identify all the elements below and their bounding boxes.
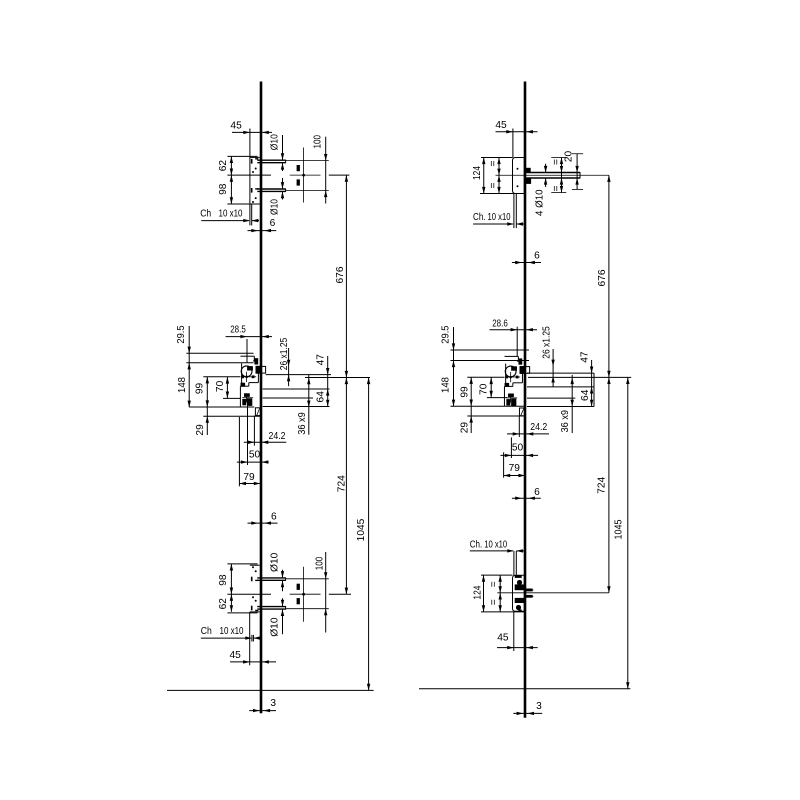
dim 70 line (right) — [490, 377, 492, 397]
dim = line (top-right) — [561, 158, 563, 193]
svg-text:24.2: 24.2 — [269, 431, 286, 442]
svg-text:62: 62 — [218, 598, 229, 610]
dim 3 line (right) — [513, 712, 542, 714]
pin extension line lower (top-left) — [286, 190, 329, 192]
hinge axis line (bottom-left) — [227, 593, 271, 595]
svg-text:Ch: Ch — [201, 626, 212, 637]
dim 50 line (right) — [501, 454, 539, 456]
svg-text:79: 79 — [509, 463, 521, 474]
svg-text:124: 124 — [473, 585, 484, 599]
cylinder circle (right) — [505, 366, 516, 377]
case step right of cylinder (left) — [257, 373, 259, 383]
svg-text:28.5: 28.5 — [230, 325, 246, 336]
svg-text:36 x9: 36 x9 — [297, 412, 308, 435]
extension line x=249.7 (bottom-left) — [249, 612, 251, 665]
dim 24.2 line (right) — [507, 433, 549, 435]
follower blocks (right) — [507, 400, 510, 405]
svg-text:6: 6 — [270, 218, 276, 229]
svg-text:24.2: 24.2 — [530, 422, 547, 433]
follower cross (left) — [246, 393, 248, 402]
svg-text:45: 45 — [230, 650, 242, 661]
Ch leader (bottom-right) — [470, 550, 513, 552]
svg-text:64: 64 — [580, 389, 591, 401]
svg-text:Ø10: Ø10 — [270, 617, 281, 637]
svg-text:99: 99 — [194, 383, 205, 395]
case bottom (right) — [451, 405, 525, 407]
keep centerline cross (top-left) — [303, 148, 305, 203]
line y=398.1 (right) — [527, 397, 575, 399]
cylinder circle (left) — [241, 366, 252, 377]
case fixing block (left) — [241, 383, 245, 386]
dim 24.2 line (left) — [244, 441, 287, 443]
svg-text:98: 98 — [218, 183, 229, 195]
case left edge (right) — [503, 386, 505, 406]
latch line y=398 (left) — [263, 397, 313, 399]
extension line x=512.9 (top-right) — [512, 129, 514, 158]
dim 1045 line (left) — [368, 378, 370, 691]
dim line 29.5/148 (right) — [453, 327, 455, 406]
chamfer second line (top-left) — [251, 204, 253, 226]
dim line 47/64 (right) — [591, 360, 593, 407]
dim 26x1.25 line (right) — [552, 349, 554, 387]
latch block (left) — [255, 359, 258, 364]
svg-text:676: 676 — [597, 269, 608, 286]
cylinder dark bar (right) — [512, 367, 517, 370]
tick y=374.6 (left) — [266, 374, 331, 376]
svg-text:Ø10: Ø10 — [270, 552, 281, 572]
tick bottom (bottom-left) — [227, 612, 257, 614]
tick y=416.2 (left) — [203, 415, 261, 417]
dim 676 line (left) — [345, 175, 347, 377]
tick y=416 (right) — [467, 415, 525, 417]
tick y=406.5 (left) — [263, 406, 330, 408]
pin extension line upper (top-left) — [286, 160, 329, 162]
cylinder box on plate (right) — [520, 367, 530, 374]
svg-text:6: 6 — [534, 251, 540, 262]
Ch leader (top-left) — [201, 220, 249, 222]
dim 28.5 line (left) — [226, 336, 272, 338]
dim 6 line (top-right) — [512, 262, 541, 264]
svg-text:3: 3 — [270, 698, 276, 709]
tick y=157.5 (top-right) — [481, 157, 513, 159]
dim 724 line (right) — [608, 377, 610, 592]
dim Ø10 line upper (top-left) — [282, 135, 284, 160]
svg-text:=: = — [488, 581, 499, 587]
dim 6 line (left middle) — [248, 522, 278, 524]
svg-text:29: 29 — [460, 422, 471, 434]
svg-text:Ch: Ch — [200, 209, 211, 220]
dim line 99/29 (right) — [470, 377, 472, 433]
dim 20 line (top-right) — [576, 154, 578, 190]
svg-text:47: 47 — [316, 354, 327, 366]
keep plate (bottom-right) — [513, 575, 525, 611]
door bottom line (left) — [167, 689, 374, 691]
case top step (left) — [253, 356, 255, 361]
keep centerline cross (bottom-left) — [303, 567, 305, 622]
hinge plate dashed marks (bottom-left) — [251, 606, 253, 611]
svg-text:10 x10: 10 x10 — [484, 540, 507, 551]
dim 45 line (top-left) — [232, 131, 272, 133]
hinge axis line (top-left) — [227, 174, 271, 176]
cylinder cross (left) — [242, 376, 257, 378]
dim 6 line (right middle) — [512, 497, 541, 499]
dim 6 line (top-left) — [248, 230, 277, 232]
deadbolt end cap (right) — [593, 373, 595, 406]
extension line x=249.9 (top-left plate edge) — [249, 129, 251, 226]
tick y=353.2 (left) — [186, 352, 253, 354]
case tab below (right) — [519, 408, 525, 416]
dim line 47/64 (left) — [327, 356, 329, 407]
extension x=247.5 (left) — [247, 398, 249, 465]
extension x=239.4 (left) — [238, 417, 240, 486]
cylinder cross (right) — [506, 376, 521, 378]
latch block (right) — [519, 359, 522, 364]
svg-text:50: 50 — [249, 450, 261, 461]
axis reference line y=377.5 (left) — [305, 377, 370, 379]
svg-text:45: 45 — [230, 120, 242, 131]
hinge plate dashed marks (top-left) — [251, 159, 253, 164]
dim 26x1.25 line (left) — [288, 348, 290, 386]
svg-text:148: 148 — [177, 377, 188, 393]
dim 676 line (right) — [608, 175, 610, 377]
keep bars (top-right) — [526, 172, 580, 174]
tick y=350 (right) — [451, 349, 530, 351]
extension x=519.3 (right) — [518, 416, 520, 437]
dim 100 line (top-left) — [325, 137, 327, 204]
svg-text:6: 6 — [271, 512, 277, 523]
extension line x=517.2 (right) — [516, 327, 518, 357]
svg-text:3: 3 — [536, 701, 542, 712]
dim Ø10 line upper (bottom-left) — [282, 570, 284, 578]
cylinder axis tick (left) — [203, 376, 240, 378]
svg-text:1045: 1045 — [614, 519, 625, 539]
dim 50 line (left) — [237, 461, 269, 463]
extension x=254.4 (left) — [253, 416, 255, 446]
dim 70 line (left) — [226, 377, 228, 399]
svg-text:148: 148 — [441, 377, 452, 393]
hinge pin lower (top-left) — [257, 188, 285, 190]
pin extension line upper (bottom-left) — [286, 578, 329, 580]
svg-text:29.5: 29.5 — [176, 325, 187, 344]
dim 36x9 line (left) — [308, 375, 310, 435]
svg-text:10 x10: 10 x10 — [488, 212, 511, 223]
tick/plate bottom y=204 (top-left) — [227, 203, 259, 205]
dim 724 line (left) — [345, 378, 347, 595]
case fixing block (right) — [505, 383, 509, 386]
svg-text:70: 70 — [479, 383, 490, 395]
hinge plate bottom edge (bottom-left) — [250, 611, 260, 613]
chamfer marks (top-right) — [513, 194, 515, 228]
dim 28.6 line (right) — [490, 329, 538, 331]
dim 124 line (bottom-right) — [483, 575, 485, 612]
cylinder left flat (left) — [241, 363, 243, 385]
tick y=156.4 (top-left) — [227, 155, 257, 157]
dim 79 line (right) — [504, 475, 525, 477]
svg-text:1045: 1045 — [356, 518, 367, 541]
tick y=373.1 (right) — [527, 372, 594, 374]
dim 3 line (left) — [249, 710, 276, 712]
svg-text:47: 47 — [580, 351, 591, 363]
svg-text:64: 64 — [316, 391, 327, 403]
hinge pin upper (bottom-left) — [257, 577, 285, 579]
extension x=511.4 (right) — [510, 437, 512, 458]
svg-text:20: 20 — [564, 151, 575, 163]
case top edge (right) — [505, 355, 519, 357]
tick y=362.8 (left) — [186, 362, 253, 364]
case tab below (left) — [255, 408, 261, 416]
follower tick y=397.6 (right) — [487, 397, 508, 399]
dim = line (bottom-right) — [499, 575, 501, 612]
tick y=389 (left) — [263, 388, 330, 390]
keep slot marks (bottom-left) — [297, 599, 299, 604]
cylinder left flat (right) — [505, 364, 507, 386]
svg-text:Ch.: Ch. — [470, 540, 483, 551]
extension line x=247 (left, cylinder axis) — [246, 339, 248, 363]
svg-text:26 x1.25: 26 x1.25 — [542, 326, 553, 359]
dim line 99/29 (left) — [206, 377, 208, 435]
keep axis line (top-right) — [496, 174, 609, 176]
chamfer marks (bottom-left) — [251, 635, 253, 642]
svg-text:=: = — [488, 182, 499, 188]
tick y=193.5 (top-right) — [480, 193, 524, 195]
hinge pin lower (bottom-left) — [257, 606, 285, 608]
dim 79 line (left) — [239, 483, 260, 485]
svg-text:62: 62 — [218, 160, 229, 172]
case left edge (left) — [239, 386, 241, 407]
follower blocks (left) — [243, 399, 246, 404]
left door centerline — [260, 82, 263, 714]
svg-text:29: 29 — [195, 424, 206, 436]
right door centerline — [524, 82, 527, 718]
tick top (bottom-left) — [227, 563, 257, 565]
pin extension line lower (bottom-left) — [286, 608, 329, 610]
tick y=175.1 right (top-left) — [329, 174, 350, 176]
svg-text:124: 124 — [472, 166, 483, 180]
svg-text:=: = — [488, 160, 499, 166]
extension x=513.8 (bottom-right) — [513, 612, 515, 651]
keep hooks (top-right) — [526, 168, 530, 172]
svg-text:Ø10: Ø10 — [270, 134, 281, 150]
svg-text:4 Ø10: 4 Ø10 — [535, 189, 546, 216]
dim line 29.5/148 (left) — [188, 326, 190, 407]
case top edge (left) — [241, 355, 255, 357]
svg-text:70: 70 — [215, 380, 226, 392]
follower tick y=398.4 (left) — [223, 397, 241, 399]
svg-text:36 x9: 36 x9 — [560, 410, 571, 433]
svg-text:10 x10: 10 x10 — [219, 209, 243, 220]
tick y=406.5 (right) — [527, 406, 594, 408]
hinge plate top edge (bottom-left) — [250, 564, 260, 566]
keep slot marks (top-left) — [297, 166, 299, 171]
dim line 62/98 (top-left) — [230, 156, 232, 204]
svg-text:676: 676 — [335, 266, 346, 283]
case bottom (left) — [189, 406, 254, 408]
dim 45 line (bottom-left) — [230, 661, 276, 663]
dim 45 line (top-right) — [496, 131, 538, 133]
svg-text:=: = — [488, 599, 499, 605]
follower cross (right) — [510, 394, 512, 403]
door bottom line (right) — [419, 688, 630, 690]
dim 45 line (bottom-right) — [497, 647, 538, 649]
tick y=386.9 (right) — [527, 386, 594, 388]
dim = line inner (top-right) — [498, 158, 500, 194]
hinge plate screw dots (bottom-left) — [255, 600, 257, 602]
chamfer marks (bottom-right) — [513, 551, 515, 575]
svg-text:10 x10: 10 x10 — [220, 626, 244, 637]
svg-text:28.6: 28.6 — [492, 319, 508, 330]
tick y=611.9 (bottom-right) — [481, 611, 524, 613]
svg-text:100: 100 — [315, 556, 326, 570]
svg-text:99: 99 — [460, 386, 471, 398]
keep plate details (bottom-right) — [515, 576, 521, 578]
hinge plate top edge (top-left) — [250, 156, 260, 158]
hinge plate screw dots (top-left) — [255, 168, 257, 170]
cylinder dark bar (left) — [248, 367, 253, 370]
dim Ø10 line lower (top-left) — [282, 178, 284, 189]
svg-text:724: 724 — [597, 476, 608, 493]
svg-text:79: 79 — [243, 472, 255, 483]
dim Ø10 line lower (bottom-left) — [282, 598, 284, 606]
dim line 98/62 (bottom-left) — [230, 564, 232, 612]
case step right of cylinder (right) — [521, 373, 523, 383]
tick y=594.2 right (bottom-left) — [329, 593, 351, 595]
svg-text:100: 100 — [313, 135, 324, 149]
svg-text:45: 45 — [495, 120, 507, 131]
keep axis line (bottom-right) — [497, 592, 609, 594]
svg-text:45: 45 — [497, 633, 509, 644]
dim 36x9 line (right) — [571, 375, 573, 433]
keep plate dots (top-right) — [517, 168, 519, 170]
tick y=360.5 (right) — [451, 360, 530, 362]
svg-text:29.5: 29.5 — [441, 325, 452, 344]
case top step (right) — [517, 356, 519, 361]
extension x=503.6 (right) — [503, 452, 505, 477]
axis reference line y=377.4 (right) — [528, 376, 631, 378]
svg-text:98: 98 — [218, 574, 229, 586]
keep plate (top-right) — [513, 158, 525, 194]
tick y=575.1 (bottom-right) — [481, 574, 513, 576]
dim 124 line (top-right) — [483, 158, 485, 194]
dim 100 line (bottom-left) — [325, 552, 327, 633]
hinge pin upper (top-left) — [257, 159, 285, 161]
Ch leader (bottom-left) — [201, 637, 251, 639]
keep pins (bottom-right) — [525, 589, 532, 591]
dim 4 Ø10 line (top-right) — [545, 164, 547, 173]
dim 1045 line (right) — [627, 377, 629, 688]
Ch leader (top-right) — [473, 223, 513, 225]
svg-text:50: 50 — [512, 443, 524, 454]
cylinder axis tick (right) — [467, 376, 504, 378]
svg-text:Ø10: Ø10 — [270, 199, 281, 215]
cylinder box on plate (left) — [256, 366, 266, 373]
svg-text:Ch.: Ch. — [473, 212, 486, 223]
svg-text:6: 6 — [534, 487, 540, 498]
